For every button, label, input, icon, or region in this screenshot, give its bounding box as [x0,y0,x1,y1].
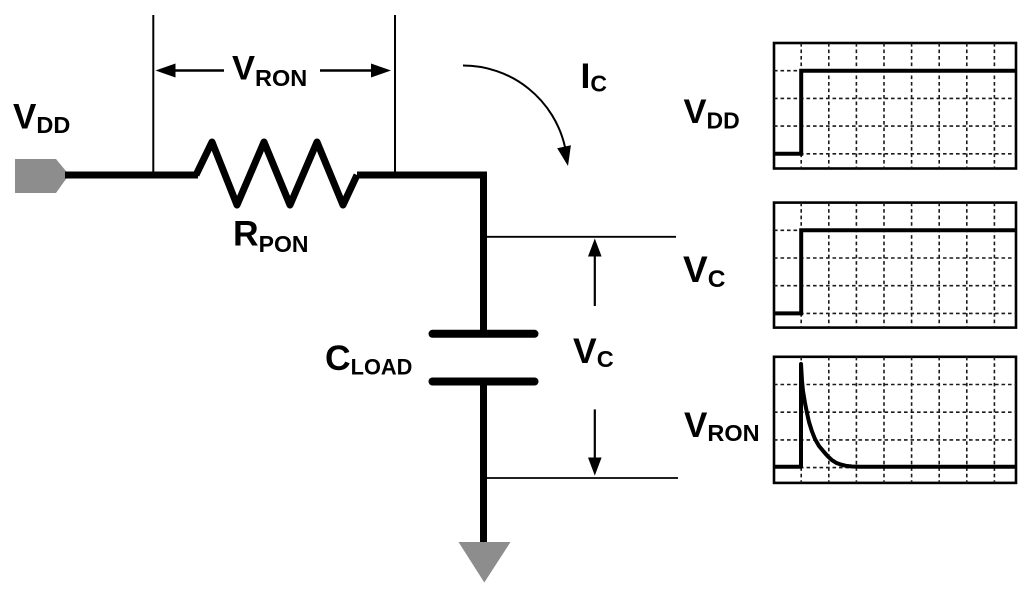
scope plot VDD: grid [774,43,1016,169]
input terminal VDD (gray connector) [15,159,69,193]
capacitor CLOAD bottom plate [433,378,535,386]
VC dimension arrow up [588,239,602,307]
scope plot VDD: waveform (step) [774,71,1016,154]
node line 0V reference (bottom) [484,477,679,479]
wire resistor to capacitor (corner node) [357,175,484,330]
scope plot VRON: waveform (spike with exponential decay) [774,364,1016,467]
scope plot VC: grid [774,203,1016,328]
scope plot VRON: grid [774,357,1016,483]
VRON dimension arrow right [320,64,391,78]
resistor RPON [196,142,357,205]
wire capacitor to ground [480,382,487,544]
wire VDD input to resistor [65,172,198,179]
VC dimension arrow down [588,409,602,475]
current arrow IC [463,65,571,166]
node line VC (top reference) [484,236,677,238]
node VRON right dimension line [394,15,396,172]
scope plot VDD: frame [774,43,1016,169]
node VRON left dimension line [152,15,154,172]
scope plot VC: waveform (step) [774,230,1016,313]
scope plot VRON: frame [774,357,1016,483]
scope plot VC: frame [774,203,1016,328]
ground [459,542,511,583]
capacitor CLOAD top plate [433,330,535,338]
VRON dimension arrow left [156,64,225,78]
